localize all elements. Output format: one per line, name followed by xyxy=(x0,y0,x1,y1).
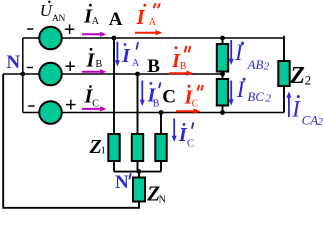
svg-text:A: A xyxy=(149,17,157,28)
svg-text:Z: Z xyxy=(89,136,102,158)
svg-text:A: A xyxy=(132,58,140,69)
svg-text:1: 1 xyxy=(101,145,106,156)
svg-text:B: B xyxy=(96,59,103,70)
svg-text:A: A xyxy=(92,16,100,27)
svg-text:2: 2 xyxy=(317,116,323,128)
svg-text:I: I xyxy=(291,96,301,121)
svg-text:2: 2 xyxy=(266,92,272,104)
svg-text:B: B xyxy=(180,61,187,72)
svg-text:C: C xyxy=(162,86,176,107)
svg-text:B: B xyxy=(147,56,160,77)
svg-text:C: C xyxy=(187,139,194,150)
svg-text:AN: AN xyxy=(52,14,66,24)
svg-text:I: I xyxy=(86,49,96,71)
svg-text:2: 2 xyxy=(264,60,270,72)
svg-text:B: B xyxy=(153,98,160,109)
svg-text:C: C xyxy=(92,98,99,109)
svg-text:AB: AB xyxy=(247,57,264,72)
svg-text:Z: Z xyxy=(289,63,305,89)
svg-text:C: C xyxy=(192,99,199,110)
svg-text:N: N xyxy=(6,52,20,73)
svg-text:A: A xyxy=(109,9,123,30)
svg-text:2: 2 xyxy=(305,73,312,88)
svg-text:N: N xyxy=(115,172,129,193)
svg-text:I: I xyxy=(136,5,146,29)
svg-text:CA: CA xyxy=(302,112,319,127)
svg-text:N: N xyxy=(159,194,166,205)
svg-text:BC: BC xyxy=(247,89,264,104)
svg-text:I: I xyxy=(121,45,131,67)
